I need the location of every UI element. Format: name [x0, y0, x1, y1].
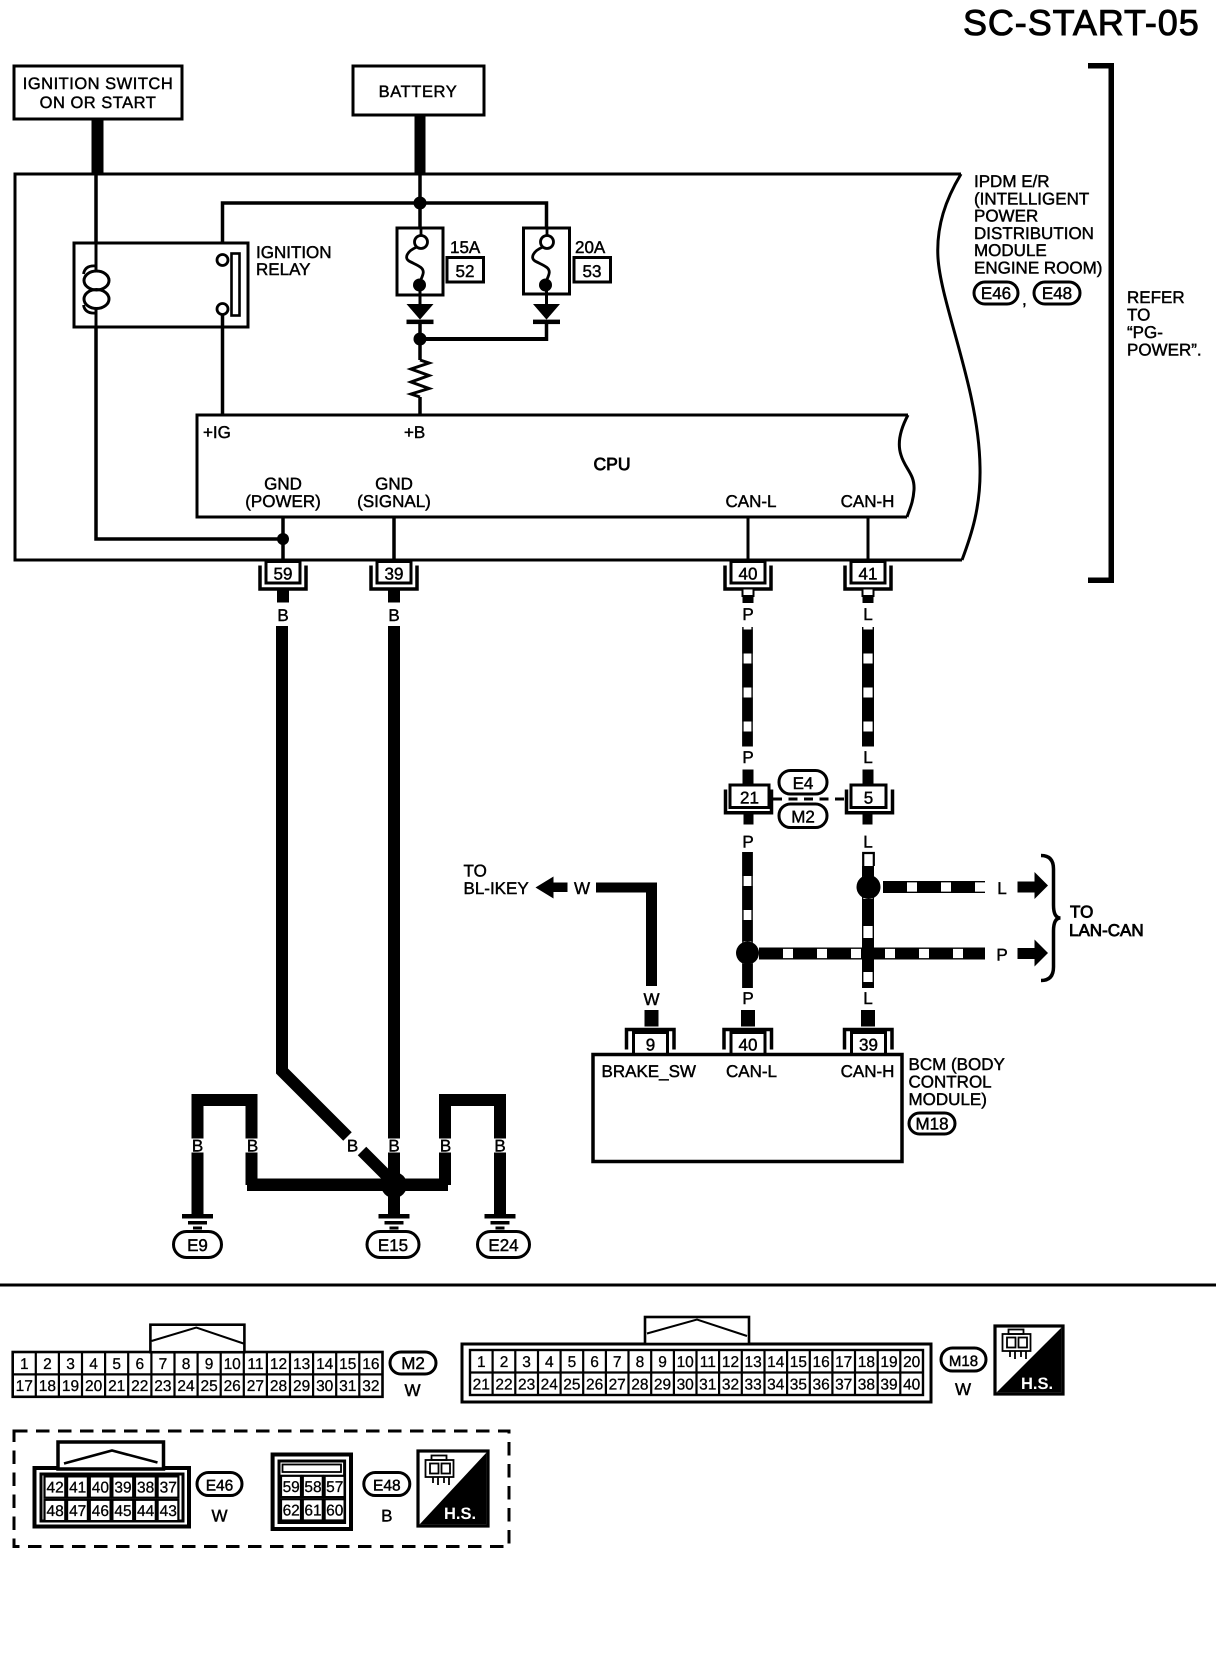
dashed harness group box — [14, 1431, 509, 1547]
connector key E46 — [58, 1442, 164, 1469]
svg-text:31: 31 — [699, 1376, 716, 1393]
svg-text:40: 40 — [739, 565, 758, 584]
svg-text:REFER: REFER — [1127, 288, 1185, 307]
svg-text:21: 21 — [740, 789, 759, 808]
svg-text:8: 8 — [636, 1354, 645, 1371]
svg-text:46: 46 — [92, 1503, 109, 1520]
connector pin 39 — [371, 562, 417, 626]
svg-text:5: 5 — [112, 1356, 121, 1373]
connector oval E46 label — [974, 282, 1018, 304]
svg-text:52: 52 — [456, 262, 475, 281]
svg-text:POWER: POWER — [974, 207, 1038, 226]
svg-text:42: 42 — [46, 1480, 63, 1497]
svg-text:B: B — [247, 1137, 258, 1156]
svg-text:61: 61 — [304, 1503, 321, 1520]
svg-text:14: 14 — [767, 1354, 785, 1371]
connector oval E48 — [364, 1473, 410, 1496]
svg-text:27: 27 — [247, 1378, 264, 1395]
svg-text:TO: TO — [1127, 306, 1150, 325]
svg-text:IPDM E/R: IPDM E/R — [974, 172, 1050, 191]
svg-text:6: 6 — [590, 1354, 599, 1371]
svg-text:62: 62 — [283, 1503, 300, 1520]
fuse 52 15A — [397, 228, 484, 304]
svg-text:9: 9 — [646, 1036, 655, 1055]
svg-text:2: 2 — [500, 1354, 509, 1371]
resistor — [411, 339, 429, 415]
IPDM E/R box outline — [15, 174, 962, 560]
svg-text:39: 39 — [385, 565, 404, 584]
svg-text:“PG-: “PG- — [1127, 323, 1163, 342]
wire B from pin 59 — [282, 626, 348, 1137]
connector key M18 — [645, 1317, 749, 1344]
relay contact bar — [232, 254, 240, 316]
wire pin 39 — [392, 517, 396, 562]
svg-text:BCM (BODY: BCM (BODY — [909, 1055, 1005, 1074]
svg-text:35: 35 — [790, 1376, 807, 1393]
svg-text:B: B — [381, 1507, 392, 1526]
wire thick from battery — [415, 115, 426, 174]
svg-text:30: 30 — [677, 1376, 695, 1393]
svg-text:B: B — [494, 1137, 505, 1156]
svg-text:E4: E4 — [793, 774, 814, 793]
svg-text:SC-START-05: SC-START-05 — [963, 2, 1200, 43]
connector oval M18 — [941, 1348, 986, 1371]
wire relay to +IG — [221, 314, 225, 415]
svg-text:CAN-H: CAN-H — [841, 1062, 895, 1081]
connector table M2 — [13, 1352, 383, 1397]
wire P dashed to LAN-CAN — [759, 946, 1008, 965]
svg-text:21: 21 — [473, 1376, 490, 1393]
svg-text:1: 1 — [20, 1356, 29, 1373]
svg-text:41: 41 — [859, 565, 878, 584]
svg-text:5: 5 — [568, 1354, 577, 1371]
svg-text:H.S.: H.S. — [1021, 1375, 1053, 1393]
connector table E46 — [35, 1468, 190, 1527]
svg-text:32: 32 — [362, 1378, 379, 1395]
svg-text:7: 7 — [613, 1354, 622, 1371]
brace LAN-CAN — [1041, 856, 1061, 981]
svg-text:+B: +B — [404, 423, 425, 442]
svg-text:11: 11 — [247, 1356, 263, 1373]
svg-text:CAN-L: CAN-L — [725, 492, 776, 511]
svg-text:M2: M2 — [791, 808, 815, 827]
svg-text:+IG: +IG — [203, 423, 231, 442]
svg-text:16: 16 — [812, 1354, 829, 1371]
svg-text:33: 33 — [744, 1376, 761, 1393]
wire to E15 ground — [388, 1185, 400, 1214]
diode D2 — [533, 304, 560, 341]
svg-text:10: 10 — [677, 1354, 695, 1371]
svg-text:26: 26 — [224, 1378, 241, 1395]
svg-text:B: B — [347, 1137, 358, 1156]
wire pin 59 — [281, 517, 285, 562]
svg-text:7: 7 — [159, 1356, 168, 1373]
svg-text:B: B — [192, 1137, 203, 1156]
svg-text:13: 13 — [293, 1356, 310, 1373]
arrow to BL-IKEY — [536, 877, 568, 899]
svg-text:B: B — [440, 1137, 451, 1156]
connector oval M2 — [779, 804, 827, 828]
svg-text:29: 29 — [293, 1378, 310, 1395]
svg-text:20: 20 — [903, 1354, 921, 1371]
svg-text:E48: E48 — [373, 1478, 401, 1495]
svg-text:W: W — [955, 1380, 971, 1399]
label BCM (BODY CONTROL MODULE) — [909, 1055, 1005, 1109]
svg-text:P: P — [742, 605, 753, 624]
svg-text:BL-IKEY: BL-IKEY — [464, 879, 529, 898]
node ground junction — [381, 1172, 407, 1198]
svg-text:BRAKE_SW: BRAKE_SW — [602, 1062, 696, 1081]
svg-text:59: 59 — [283, 1479, 300, 1496]
node battery junction — [414, 197, 427, 210]
svg-text:22: 22 — [131, 1378, 148, 1395]
svg-text:L: L — [997, 879, 1006, 898]
svg-text:,: , — [1022, 290, 1027, 309]
connector oval M18 label — [909, 1113, 955, 1134]
svg-text:CAN-L: CAN-L — [726, 1062, 777, 1081]
svg-text:E46: E46 — [981, 284, 1011, 303]
svg-text:19: 19 — [880, 1354, 897, 1371]
ground E24 — [478, 1214, 530, 1258]
wire ignition to relay — [94, 174, 98, 244]
svg-text:13: 13 — [744, 1354, 761, 1371]
svg-text:E15: E15 — [378, 1236, 408, 1255]
wire junction to fuse 53 — [420, 203, 547, 228]
svg-text:38: 38 — [137, 1480, 154, 1497]
connector table E48 — [273, 1455, 351, 1530]
connector BCM pin 9 — [627, 1030, 675, 1055]
svg-text:MODULE): MODULE) — [909, 1090, 987, 1109]
svg-text:28: 28 — [631, 1376, 648, 1393]
wire E9 loop (left inverted U) — [192, 1094, 258, 1214]
svg-text:57: 57 — [326, 1479, 343, 1496]
relay coil — [95, 243, 98, 272]
svg-text:L: L — [863, 989, 872, 1008]
connector table M18 — [462, 1344, 931, 1402]
svg-text:39: 39 — [880, 1376, 897, 1393]
svg-text:L: L — [863, 605, 872, 624]
svg-text:15: 15 — [339, 1356, 356, 1373]
svg-text:22: 22 — [495, 1376, 512, 1393]
battery box — [353, 66, 484, 115]
svg-text:60: 60 — [326, 1503, 344, 1520]
svg-text:4: 4 — [89, 1356, 98, 1373]
wire relay contact up to bus — [223, 203, 421, 255]
symbol H.S. harness side (bottom) — [418, 1451, 488, 1526]
svg-text:3: 3 — [522, 1354, 531, 1371]
svg-text:9: 9 — [205, 1356, 214, 1373]
svg-text:BATTERY: BATTERY — [379, 83, 458, 101]
label REFER TO PG-POWER — [1127, 288, 1202, 360]
svg-text:4: 4 — [545, 1354, 554, 1371]
svg-text:12: 12 — [270, 1356, 287, 1373]
wire CAN-H over crossing — [863, 945, 874, 962]
wire CAN-L dashed (21 to BCM 40) — [743, 852, 752, 988]
connector pin 41 — [845, 562, 891, 625]
svg-text:29: 29 — [654, 1376, 671, 1393]
separator line — [0, 1284, 1216, 1287]
wire E24 loop (right inverted U) — [439, 1094, 506, 1214]
svg-text:2: 2 — [43, 1356, 52, 1373]
svg-text:15: 15 — [790, 1354, 807, 1371]
svg-text:31: 31 — [339, 1378, 356, 1395]
svg-text:POWER”.: POWER”. — [1127, 341, 1202, 360]
diode D1 — [407, 304, 434, 339]
relay contact pins — [217, 255, 228, 266]
svg-text:5: 5 — [864, 789, 873, 808]
node CAN-L junction — [736, 942, 759, 965]
svg-text:GND: GND — [264, 475, 302, 494]
svg-text:37: 37 — [835, 1376, 852, 1393]
svg-text:58: 58 — [304, 1479, 321, 1496]
svg-text:34: 34 — [767, 1376, 785, 1393]
svg-text:E24: E24 — [488, 1236, 518, 1255]
connector pin 59 — [260, 562, 306, 626]
connector pin 40 — [725, 562, 771, 625]
svg-text:30: 30 — [316, 1378, 334, 1395]
svg-text:45: 45 — [114, 1503, 131, 1520]
label IPDM E/R block — [974, 172, 1102, 278]
wire relay coil to gnd bus — [96, 327, 283, 539]
svg-text:ON OR START: ON OR START — [40, 94, 157, 112]
svg-text:M2: M2 — [401, 1354, 425, 1373]
IPDM torn right edge — [938, 174, 980, 560]
svg-text:40: 40 — [903, 1376, 921, 1393]
svg-text:B: B — [388, 1137, 399, 1156]
CPU box — [197, 415, 914, 517]
label B wire colours — [192, 1137, 506, 1156]
wire W thick to brake_sw — [596, 883, 657, 893]
svg-text:LAN-CAN: LAN-CAN — [1069, 921, 1144, 940]
svg-text:39: 39 — [114, 1480, 131, 1497]
svg-text:(POWER): (POWER) — [245, 492, 321, 511]
svg-text:14: 14 — [316, 1356, 334, 1373]
bracket refer PG-POWER — [1088, 63, 1114, 583]
connector 21 (E4/M2 inline) — [726, 770, 772, 852]
svg-text:GND: GND — [375, 475, 413, 494]
svg-text:E9: E9 — [187, 1236, 208, 1255]
wire CAN-H dashed (5 to BCM 39) — [863, 853, 874, 988]
svg-text:P: P — [742, 748, 753, 767]
svg-text:W: W — [643, 990, 659, 1009]
wire thick from ignition switch — [92, 119, 104, 174]
wire diode junction — [420, 337, 547, 341]
svg-text:47: 47 — [69, 1503, 86, 1520]
svg-text:41: 41 — [69, 1480, 86, 1497]
svg-text:24: 24 — [541, 1376, 559, 1393]
svg-text:6: 6 — [135, 1356, 144, 1373]
svg-text:11: 11 — [700, 1354, 716, 1371]
connector 5 (E4/M2 inline) — [847, 770, 893, 852]
svg-text:20A: 20A — [575, 238, 606, 257]
wire CAN-L dashed (pin 40 to connector 21) — [742, 627, 753, 767]
svg-text:M18: M18 — [949, 1353, 978, 1370]
svg-text:23: 23 — [154, 1378, 171, 1395]
svg-text:ENGINE ROOM): ENGINE ROOM) — [974, 259, 1102, 278]
svg-text:1: 1 — [477, 1354, 486, 1371]
svg-text:CPU: CPU — [594, 454, 631, 474]
wire CAN-H dashed (pin 41 to connector 5) — [863, 627, 874, 767]
wire B from pin 39 — [388, 626, 400, 1139]
svg-text:19: 19 — [62, 1378, 79, 1395]
wire ground bus — [247, 1179, 448, 1192]
svg-text:L: L — [863, 748, 872, 767]
arrow to LAN-CAN L — [1018, 872, 1049, 899]
connector BCM pin 40 — [724, 1030, 772, 1055]
connector key M2 — [150, 1325, 244, 1353]
svg-text:18: 18 — [39, 1378, 56, 1395]
svg-text:40: 40 — [739, 1036, 758, 1055]
svg-text:32: 32 — [722, 1376, 739, 1393]
connector BCM pin 39 — [845, 1030, 893, 1055]
ground E9 — [174, 1214, 222, 1258]
svg-text:21: 21 — [108, 1378, 125, 1395]
relay IGNITION RELAY — [74, 243, 332, 327]
connector oval E48 label — [1034, 282, 1080, 304]
symbol H.S. harness side (top) — [995, 1326, 1063, 1394]
connector oval E46 — [197, 1473, 242, 1496]
svg-text:B: B — [277, 606, 288, 625]
svg-text:26: 26 — [586, 1376, 603, 1393]
wire pin 40 — [747, 517, 750, 562]
svg-text:15A: 15A — [450, 238, 481, 257]
CPU torn right edge — [899, 415, 914, 517]
svg-text:P: P — [996, 946, 1007, 965]
svg-text:(SIGNAL): (SIGNAL) — [357, 492, 431, 511]
connector oval E4 — [779, 771, 827, 795]
svg-text:44: 44 — [137, 1503, 155, 1520]
svg-text:CAN-H: CAN-H — [841, 492, 895, 511]
svg-text:36: 36 — [812, 1376, 829, 1393]
svg-text:24: 24 — [177, 1378, 195, 1395]
svg-text:59: 59 — [274, 565, 293, 584]
svg-text:3: 3 — [66, 1356, 75, 1373]
svg-text:20: 20 — [85, 1378, 103, 1395]
svg-text:27: 27 — [609, 1376, 626, 1393]
svg-text:25: 25 — [200, 1378, 217, 1395]
node CAN-H junction — [857, 875, 881, 899]
svg-text:43: 43 — [160, 1503, 177, 1520]
svg-text:48: 48 — [46, 1503, 63, 1520]
ignition switch box — [14, 66, 182, 119]
wire battery down to junction — [418, 174, 422, 228]
svg-text:53: 53 — [583, 262, 602, 281]
node diode junction — [414, 333, 427, 346]
svg-text:17: 17 — [16, 1378, 33, 1395]
svg-text:28: 28 — [270, 1378, 287, 1395]
ground E15 — [367, 1214, 419, 1258]
svg-text:18: 18 — [858, 1354, 875, 1371]
node gnd junction — [277, 533, 289, 545]
svg-text:L: L — [863, 833, 872, 852]
BCM box — [593, 1055, 902, 1162]
svg-text:TO: TO — [1070, 903, 1093, 922]
wire L dashed to LAN-CAN — [883, 879, 1007, 898]
svg-text:RELAY: RELAY — [256, 260, 311, 279]
arrow to LAN-CAN P — [1018, 940, 1049, 967]
svg-text:25: 25 — [563, 1376, 580, 1393]
svg-text:P: P — [742, 833, 753, 852]
svg-text:B: B — [388, 606, 399, 625]
svg-text:TO: TO — [464, 862, 487, 881]
wire pin 41 — [867, 517, 870, 562]
svg-text:16: 16 — [362, 1356, 379, 1373]
connector oval M2 — [390, 1352, 436, 1374]
svg-text:P: P — [742, 989, 753, 1008]
svg-text:M18: M18 — [915, 1115, 948, 1134]
svg-text:8: 8 — [182, 1356, 191, 1373]
fuse 53 20A — [524, 228, 611, 304]
wire B diagonal — [362, 1151, 392, 1181]
svg-text:37: 37 — [160, 1480, 177, 1497]
svg-text:CONTROL: CONTROL — [909, 1073, 992, 1092]
svg-text:E46: E46 — [206, 1478, 234, 1495]
svg-text:40: 40 — [92, 1480, 110, 1497]
svg-text:10: 10 — [224, 1356, 242, 1373]
svg-text:W: W — [574, 879, 590, 898]
svg-text:12: 12 — [722, 1354, 739, 1371]
svg-text:MODULE: MODULE — [974, 241, 1047, 260]
svg-text:9: 9 — [658, 1354, 667, 1371]
svg-text:H.S.: H.S. — [444, 1505, 476, 1523]
svg-text:23: 23 — [518, 1376, 535, 1393]
svg-text:38: 38 — [858, 1376, 875, 1393]
svg-text:IGNITION SWITCH: IGNITION SWITCH — [23, 75, 174, 93]
wire dashed link 21-5 — [773, 798, 845, 801]
svg-text:39: 39 — [859, 1036, 878, 1055]
svg-text:E48: E48 — [1042, 284, 1072, 303]
svg-text:17: 17 — [835, 1354, 852, 1371]
svg-text:W: W — [211, 1507, 227, 1526]
svg-text:W: W — [404, 1381, 420, 1400]
